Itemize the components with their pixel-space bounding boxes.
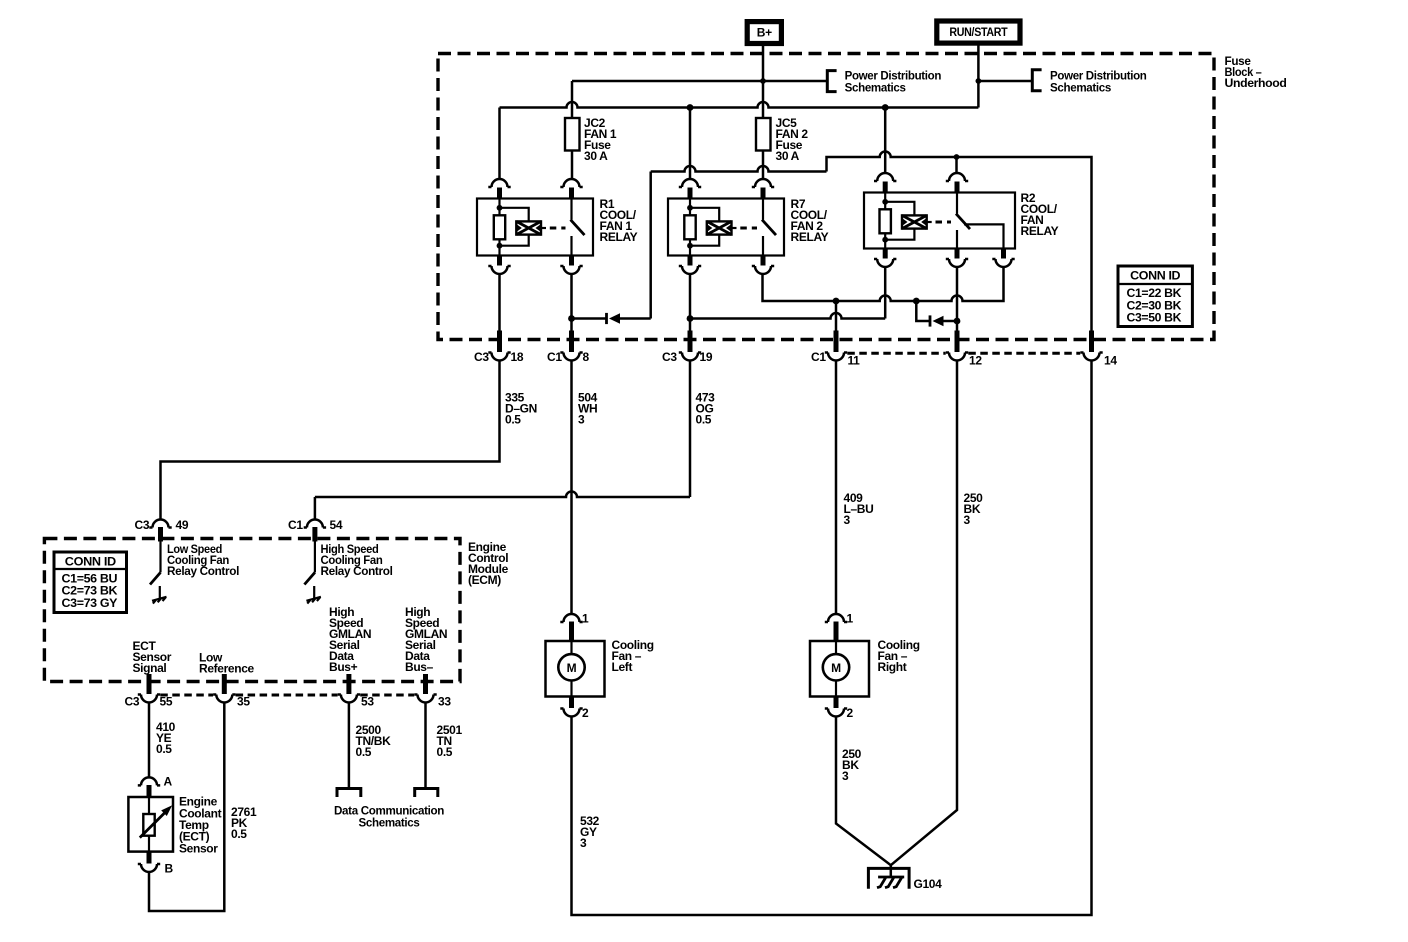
fuse block connector terminals row bbox=[497, 331, 502, 353]
svg-text:(ECM): (ECM) bbox=[468, 573, 501, 587]
wire ground loop pin14 - bottom - left fan bbox=[572, 361, 1092, 916]
relay R7 box bbox=[668, 199, 784, 256]
fuse JC2 body bbox=[565, 118, 580, 151]
junction dot pin 12 line bbox=[954, 318, 961, 325]
wire drop to R2 coil terminal bbox=[884, 108, 887, 174]
svg-text:Relay Control: Relay Control bbox=[321, 564, 393, 578]
svg-text:C1: C1 bbox=[547, 350, 562, 364]
svg-text:C3: C3 bbox=[474, 350, 489, 364]
svg-text:Left: Left bbox=[612, 660, 633, 674]
svg-text:C1: C1 bbox=[811, 350, 826, 364]
relay R1 box bbox=[477, 199, 593, 256]
diode D2 (series fan link) bbox=[929, 315, 932, 326]
connector ECT pin A bbox=[138, 777, 160, 785]
wire fan right feed to connector C1-11 bbox=[835, 301, 838, 331]
wire 2500 TN/BK bbox=[348, 703, 351, 788]
wire R7 coil to R2 coil bus y318.5 bbox=[690, 313, 885, 319]
svg-text:49: 49 bbox=[176, 518, 189, 532]
wire diode D2 to pin 12 line bbox=[944, 320, 958, 323]
junction dot R1 switch output bbox=[568, 315, 575, 322]
svg-text:35: 35 bbox=[237, 695, 250, 709]
svg-text:11: 11 bbox=[848, 354, 861, 368]
svg-text:C1: C1 bbox=[288, 518, 303, 532]
ECM dashed border bbox=[44, 539, 460, 682]
junction dot RUN/START branch bbox=[976, 78, 982, 84]
fuse block underhood dashed border bbox=[438, 54, 1214, 340]
dotted connector line C1 group bbox=[847, 352, 1080, 355]
relay R1 internals (coil, resistor, switch) bbox=[498, 199, 500, 256]
svg-text:55: 55 bbox=[160, 695, 173, 709]
wire diode D1 to riser bbox=[620, 317, 651, 320]
ECT sensor variable resistor bbox=[143, 814, 154, 836]
wire 2761 PK return loop bbox=[149, 703, 224, 912]
wire R1 switch to connector C1-8 bbox=[570, 274, 573, 331]
svg-text:Underhood: Underhood bbox=[1225, 76, 1287, 90]
wire R7 switch output bus y301 bbox=[763, 268, 1004, 302]
power symbol RUN/START (ignition feed box) bbox=[934, 18, 1022, 45]
svg-text:C3=50 BK: C3=50 BK bbox=[1127, 311, 1182, 325]
wire battery bus to Power Distribution bracket (y81) bbox=[572, 80, 827, 83]
relay R2 switch output to third terminal bbox=[964, 224, 1004, 248]
svg-text:Bus–: Bus– bbox=[405, 660, 434, 674]
junction dot fan right feed bbox=[833, 298, 840, 305]
wire 473 OG horizontal with hop bbox=[315, 492, 690, 497]
wire 409 L-BU to right fan bbox=[835, 361, 838, 614]
wire drop to R2 switch terminal bbox=[955, 157, 958, 174]
wire drop to R1 coil terminal bbox=[498, 108, 501, 180]
svg-text:18: 18 bbox=[511, 350, 524, 364]
ground G104 symbol bbox=[868, 868, 909, 888]
wire 473 OG drop from C3-19 bbox=[689, 361, 692, 498]
svg-text:54: 54 bbox=[330, 518, 343, 532]
svg-text:A: A bbox=[164, 775, 173, 789]
wire 250 BK from pin 12 to ground bbox=[891, 361, 957, 866]
svg-text:3: 3 bbox=[964, 513, 971, 527]
svg-text:Reference: Reference bbox=[199, 662, 255, 676]
svg-text:1: 1 bbox=[847, 612, 854, 626]
ECM CONN ID table bbox=[54, 552, 127, 613]
svg-text:G104: G104 bbox=[914, 877, 943, 891]
svg-text:30 A: 30 A bbox=[584, 149, 608, 163]
relay R1 terminals bbox=[488, 179, 510, 187]
dotted connector line ECM bottom bbox=[160, 694, 414, 697]
svg-text:CONN ID: CONN ID bbox=[1130, 269, 1181, 283]
svg-text:Signal: Signal bbox=[133, 661, 167, 675]
junction dot ignition bus to R7 coil bbox=[687, 104, 694, 111]
wire B+ vertical feed bbox=[762, 46, 765, 118]
fuse JC5 body bbox=[756, 118, 771, 151]
motor Cooling Fan Right bbox=[825, 614, 847, 622]
connector ECT pin B bbox=[147, 852, 152, 864]
wire R1 switch output to diode bbox=[572, 317, 607, 320]
wire ignition bus y107.5 with hops over fuse feeds bbox=[500, 102, 979, 107]
bracket Data Communication (left) bbox=[337, 789, 361, 798]
ECT sensor arrow bbox=[140, 812, 166, 838]
svg-text:0.5: 0.5 bbox=[505, 412, 521, 426]
svg-text:B+: B+ bbox=[757, 26, 772, 40]
wire JC2 fuse to R1 switch terminal bbox=[571, 151, 574, 180]
fuse block CONN ID table bbox=[1118, 266, 1192, 327]
wire 2501 TN bbox=[424, 703, 427, 788]
wire riser x650.7 bbox=[649, 172, 652, 319]
wire R7/R2 link bus y171.5 bbox=[651, 166, 827, 171]
svg-text:0.5: 0.5 bbox=[156, 742, 172, 756]
svg-text:Bus+: Bus+ bbox=[329, 660, 358, 674]
svg-text:Sensor: Sensor bbox=[179, 841, 218, 855]
wire R2 common to connector 12 bbox=[956, 268, 959, 332]
junction dot R7 coil output bbox=[687, 315, 694, 322]
wire drop to R7 coil terminal bbox=[689, 108, 692, 180]
svg-text:0.5: 0.5 bbox=[696, 412, 712, 426]
connector C3-49 terminal bbox=[149, 520, 171, 528]
svg-text:RELAY: RELAY bbox=[1021, 224, 1059, 238]
svg-text:RELAY: RELAY bbox=[600, 230, 638, 244]
svg-text:C3: C3 bbox=[125, 695, 140, 709]
svg-text:2: 2 bbox=[847, 706, 854, 720]
svg-text:19: 19 bbox=[700, 350, 713, 364]
diode D1 (low speed) bbox=[605, 313, 608, 324]
svg-text:Relay Control: Relay Control bbox=[167, 564, 239, 578]
svg-text:Schematics: Schematics bbox=[1050, 80, 1112, 94]
connector C1-54 terminal bbox=[304, 520, 326, 528]
svg-text:3: 3 bbox=[578, 412, 585, 426]
junction dot diode D2 branch bbox=[913, 298, 920, 305]
svg-text:M: M bbox=[831, 661, 841, 675]
svg-text:Schematics: Schematics bbox=[845, 80, 907, 94]
svg-text:0.5: 0.5 bbox=[437, 745, 453, 759]
svg-text:Right: Right bbox=[878, 660, 907, 674]
ECM high speed fan relay control driver (switch to ground) bbox=[314, 542, 316, 573]
wire 335 D-GN to ECM C3-49 bbox=[161, 361, 500, 520]
svg-text:30 A: 30 A bbox=[776, 149, 800, 163]
wire JC2 fuse feed bbox=[571, 81, 574, 118]
svg-text:CONN ID: CONN ID bbox=[65, 554, 117, 568]
ECT sensor box bbox=[128, 797, 173, 852]
svg-text:0.5: 0.5 bbox=[231, 827, 247, 841]
wire R7 coil to connector C3-19 bbox=[689, 274, 692, 331]
motor Cooling Fan Left bbox=[560, 614, 582, 622]
junction dot B+ bus bbox=[760, 78, 766, 84]
bracket Data Communication (right) bbox=[415, 789, 438, 798]
ECT sensor internal wire bbox=[148, 797, 150, 852]
svg-text:3: 3 bbox=[844, 513, 851, 527]
relay R2 box bbox=[864, 193, 1015, 249]
wire right fan to ground bbox=[836, 717, 891, 866]
junction dot ignition bus to R2 coil bbox=[882, 104, 889, 111]
ECM bottom connector terminals bbox=[147, 674, 152, 694]
svg-text:2: 2 bbox=[582, 706, 589, 720]
svg-text:C3: C3 bbox=[135, 518, 150, 532]
svg-text:3: 3 bbox=[580, 836, 587, 850]
svg-text:RELAY: RELAY bbox=[791, 230, 829, 244]
svg-text:8: 8 bbox=[583, 350, 590, 364]
svg-text:RUN/START: RUN/START bbox=[949, 25, 1008, 39]
svg-text:0.5: 0.5 bbox=[356, 745, 372, 759]
relay R2 third terminal bbox=[1001, 249, 1006, 259]
bracket Power Distribution (left) bbox=[827, 71, 836, 92]
svg-text:Schematics: Schematics bbox=[359, 815, 421, 829]
wire 504 WH to left fan bbox=[570, 361, 573, 614]
wire diode D2 branch bbox=[916, 301, 929, 321]
power symbol B+ (battery feed box) bbox=[745, 19, 784, 46]
svg-text:14: 14 bbox=[1104, 354, 1117, 368]
wire R7 feed bus y157 to R2 switch and pin 14 bbox=[827, 152, 1092, 342]
relay R7 terminals bbox=[679, 179, 701, 187]
wire R2 coil lower bbox=[884, 267, 887, 319]
svg-text:33: 33 bbox=[438, 695, 451, 709]
junction dot R2 switch feed bbox=[954, 154, 960, 160]
relay R2 terminals bbox=[874, 173, 896, 181]
bracket Power Distribution (right) bbox=[1032, 70, 1041, 91]
svg-text:1: 1 bbox=[582, 612, 589, 626]
wire JC5 fuse to R7 switch terminal bbox=[762, 151, 765, 180]
wire RUN/START to Power Distribution bracket (right) bbox=[978, 80, 1032, 83]
svg-text:3: 3 bbox=[842, 769, 849, 783]
wire R1 coil to connector C3-18 bbox=[498, 274, 501, 331]
svg-text:B: B bbox=[165, 862, 174, 876]
svg-text:C3=73 GY: C3=73 GY bbox=[62, 596, 118, 610]
wire 410 YE to ECT sensor bbox=[148, 703, 151, 778]
svg-text:12: 12 bbox=[969, 354, 982, 368]
svg-text:M: M bbox=[567, 661, 577, 675]
svg-text:53: 53 bbox=[361, 695, 374, 709]
wire 473 OG to ECM C1-54 bbox=[314, 497, 317, 520]
ECM low speed fan relay control driver (switch to ground) bbox=[159, 542, 161, 573]
relay R7 internals (coil, resistor, switch) bbox=[689, 199, 691, 256]
wire RUN/START vertical bbox=[977, 45, 980, 107]
relay R2 internals (coil, resistor, switch) bbox=[884, 193, 886, 249]
svg-text:C3: C3 bbox=[662, 350, 677, 364]
